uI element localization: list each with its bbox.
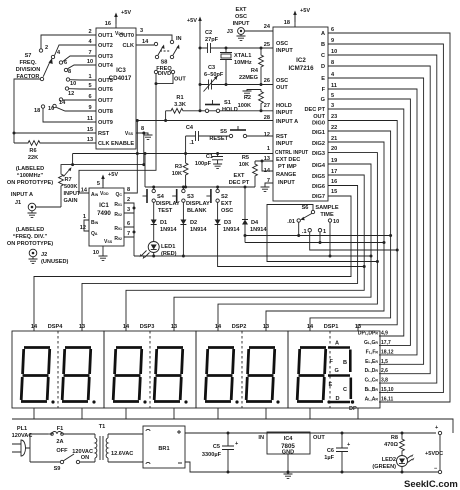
svg-text:SeekIC.com: SeekIC.com bbox=[404, 479, 458, 490]
svg-text:F: F bbox=[330, 359, 334, 365]
svg-text:OSC: OSC bbox=[221, 208, 233, 214]
svg-text:470Ω: 470Ω bbox=[384, 442, 398, 448]
svg-text:D4: D4 bbox=[251, 220, 259, 226]
svg-text:11: 11 bbox=[87, 116, 93, 122]
switch S6 SAMPLE TIME bbox=[287, 205, 339, 235]
svg-text:INPUT: INPUT bbox=[276, 48, 293, 54]
svg-text:IN: IN bbox=[258, 435, 264, 441]
svg-text:27pF: 27pF bbox=[205, 37, 219, 43]
svg-text:16,11: 16,11 bbox=[381, 397, 393, 403]
IC3 pin16 +5V bbox=[115, 14, 117, 28]
svg-text:11: 11 bbox=[331, 83, 337, 89]
svg-text:R3: R3 bbox=[175, 164, 182, 170]
svg-text:5: 5 bbox=[331, 93, 334, 99]
svg-text:R1: R1 bbox=[176, 95, 183, 101]
transformer T1 bbox=[72, 424, 143, 462]
svg-text:120VAC: 120VAC bbox=[12, 433, 33, 439]
svg-text:INPUT: INPUT bbox=[278, 180, 295, 186]
svg-text:13: 13 bbox=[87, 137, 93, 143]
svg-text:IC1: IC1 bbox=[99, 202, 109, 209]
svg-text:.01: .01 bbox=[287, 219, 295, 225]
wire segment G pin 5 bbox=[328, 99, 410, 345]
svg-text:LED1: LED1 bbox=[161, 244, 175, 250]
bridge rectifier BR1 bbox=[143, 426, 185, 468]
svg-text:17,7: 17,7 bbox=[381, 340, 391, 346]
svg-text:3300µF: 3300µF bbox=[202, 452, 222, 458]
svg-text:DP: DP bbox=[349, 406, 357, 412]
svg-text:OUT: OUT bbox=[276, 85, 288, 91]
svg-text:F1: F1 bbox=[57, 426, 64, 432]
svg-text:C6: C6 bbox=[327, 448, 334, 454]
svg-text:12.6VAC: 12.6VAC bbox=[111, 451, 133, 457]
svg-text:+5V: +5V bbox=[121, 10, 131, 16]
svg-text:C1: C1 bbox=[206, 154, 213, 160]
svg-text:D: D bbox=[336, 396, 340, 402]
diode D1 1N914 bbox=[151, 217, 157, 227]
wire DIG7 pin 15 bbox=[34, 196, 351, 331]
pushbutton S4 DISPLAY TEST bbox=[143, 187, 180, 217]
svg-text:XTAL1: XTAL1 bbox=[234, 53, 251, 59]
svg-text:IC3: IC3 bbox=[116, 67, 126, 74]
svg-text:GAIN: GAIN bbox=[64, 198, 78, 204]
S7 common wire to left rail bbox=[14, 79, 40, 143]
resistor R8 470 ohm bbox=[401, 433, 403, 437]
svg-text:6: 6 bbox=[64, 60, 67, 66]
switch S7 FREQ DIVISION FACTOR bbox=[16, 45, 77, 114]
svg-text:16: 16 bbox=[331, 179, 337, 185]
svg-text:OUT1: OUT1 bbox=[98, 33, 113, 39]
digit DSP1 left bbox=[297, 348, 331, 404]
svg-text:C5: C5 bbox=[213, 444, 220, 450]
svg-text:DSP1: DSP1 bbox=[324, 324, 339, 330]
svg-text:OUT2: OUT2 bbox=[98, 43, 113, 49]
wire DIG5 pin 17 bbox=[126, 175, 364, 331]
IC3 CLK pin 14 wire to S8 bbox=[136, 44, 154, 46]
svg-text:7: 7 bbox=[88, 50, 91, 56]
svg-text:RST: RST bbox=[276, 134, 288, 140]
svg-text:8: 8 bbox=[68, 69, 71, 75]
wire DIG0 pin 23 bbox=[328, 121, 397, 332]
svg-text:S7: S7 bbox=[25, 53, 32, 59]
display DSP3 bbox=[104, 324, 196, 408]
digit DSP2 right bbox=[246, 348, 280, 404]
svg-text:15: 15 bbox=[87, 127, 93, 133]
wire R7 node to IC3 ground stub bbox=[73, 133, 144, 165]
svg-text:DIG2: DIG2 bbox=[312, 141, 325, 147]
svg-text:RANGE: RANGE bbox=[276, 172, 296, 178]
pushbutton S2 EXT OSC bbox=[206, 187, 233, 217]
svg-text:19: 19 bbox=[331, 158, 337, 164]
svg-text:22K: 22K bbox=[28, 155, 38, 161]
LED1 (RED) bbox=[153, 227, 155, 242]
svg-text:CLK: CLK bbox=[123, 43, 135, 49]
wire display anode rail bbox=[12, 419, 453, 433]
svg-text:BLANK: BLANK bbox=[187, 208, 207, 214]
svg-text:120VAC: 120VAC bbox=[72, 449, 93, 455]
IC2 pin7 ground bbox=[265, 183, 273, 187]
IC2 ICM7216 bbox=[273, 27, 328, 201]
svg-text:8: 8 bbox=[331, 60, 334, 66]
svg-text:12: 12 bbox=[68, 91, 74, 97]
svg-text:15,10: 15,10 bbox=[381, 387, 394, 393]
resistor R1 3.3K bbox=[169, 108, 185, 113]
svg-text:ICM7216: ICM7216 bbox=[288, 65, 314, 72]
resistor R6 22K bbox=[26, 141, 42, 146]
svg-text:100pF: 100pF bbox=[195, 161, 212, 167]
svg-text:C: C bbox=[343, 387, 347, 393]
display DSP4 bbox=[12, 324, 104, 408]
svg-text:23: 23 bbox=[331, 114, 337, 120]
LED2 (GREEN) bbox=[401, 453, 403, 456]
svg-text:1: 1 bbox=[323, 229, 326, 235]
IC1 pin5 +5V bbox=[102, 176, 104, 188]
S7 contact wires bbox=[41, 35, 80, 49]
svg-text:R7: R7 bbox=[65, 177, 72, 183]
plug PL1 120VAC bbox=[12, 426, 55, 462]
svg-text:DSP2: DSP2 bbox=[232, 324, 247, 330]
svg-text:IC4: IC4 bbox=[284, 436, 294, 442]
svg-text:16: 16 bbox=[105, 21, 111, 27]
svg-text:13: 13 bbox=[355, 324, 361, 330]
svg-text:14: 14 bbox=[123, 324, 130, 330]
svg-text:DIVD: DIVD bbox=[158, 71, 171, 77]
svg-text:CLK ENABLE: CLK ENABLE bbox=[98, 141, 134, 147]
svg-text:OSC: OSC bbox=[276, 41, 288, 47]
wire INPUT A row bbox=[137, 120, 273, 122]
power top rail bbox=[185, 432, 436, 434]
wire DIG3 pin 20 bbox=[218, 153, 377, 331]
svg-text:18,12: 18,12 bbox=[381, 349, 394, 355]
svg-text:OUT7: OUT7 bbox=[98, 98, 113, 104]
svg-text:D: D bbox=[321, 64, 325, 70]
svg-text:6–50pF: 6–50pF bbox=[204, 72, 224, 78]
svg-text:OUT4: OUT4 bbox=[98, 63, 114, 69]
svg-text:DIG7: DIG7 bbox=[312, 194, 325, 200]
svg-text:2,6: 2,6 bbox=[381, 368, 388, 374]
svg-text:OSC: OSC bbox=[276, 78, 288, 84]
svg-text:F: F bbox=[322, 87, 326, 93]
svg-text:24: 24 bbox=[264, 24, 271, 30]
svg-text:9: 9 bbox=[331, 38, 334, 44]
svg-text:RST: RST bbox=[98, 131, 110, 137]
svg-text:2: 2 bbox=[88, 29, 91, 35]
digit DSP3 left bbox=[113, 348, 147, 404]
svg-text:3,8: 3,8 bbox=[381, 378, 388, 384]
svg-text:3: 3 bbox=[127, 207, 130, 213]
svg-text:(UNUSED): (UNUSED) bbox=[41, 259, 68, 265]
svg-text:DIG0: DIG0 bbox=[312, 121, 325, 127]
svg-text:1N914: 1N914 bbox=[223, 227, 240, 233]
svg-text:OUT: OUT bbox=[174, 77, 186, 83]
svg-text:OUT5: OUT5 bbox=[98, 78, 113, 84]
svg-text:DSP4: DSP4 bbox=[48, 324, 64, 330]
crystal XTAL1 10MHz bbox=[220, 48, 252, 85]
svg-text:PT IMP: PT IMP bbox=[278, 164, 297, 170]
svg-text:S4: S4 bbox=[157, 194, 165, 200]
svg-text:(LABELED: (LABELED bbox=[16, 227, 44, 233]
svg-text:3: 3 bbox=[331, 103, 334, 109]
svg-text:14: 14 bbox=[31, 324, 38, 330]
svg-text:3.3K: 3.3K bbox=[174, 102, 186, 108]
svg-text:2A: 2A bbox=[56, 439, 63, 445]
svg-text:12: 12 bbox=[80, 225, 86, 231]
svg-text:ON PROTOTYPE): ON PROTOTYPE) bbox=[7, 180, 53, 186]
svg-text:PL1: PL1 bbox=[17, 426, 27, 432]
svg-text:DIG1: DIG1 bbox=[312, 130, 325, 136]
svg-text:DISPLAY: DISPLAY bbox=[186, 201, 210, 207]
svg-text:1,5: 1,5 bbox=[381, 359, 388, 365]
svg-text:1: 1 bbox=[83, 214, 86, 220]
svg-text:IC2: IC2 bbox=[296, 57, 306, 64]
svg-text:EXT: EXT bbox=[221, 201, 232, 207]
IC3 pin stubs left bbox=[14, 35, 96, 143]
svg-text:S6: S6 bbox=[302, 205, 309, 211]
wire segment B pin 9 bbox=[328, 44, 443, 393]
svg-text:S8: S8 bbox=[161, 60, 168, 66]
regulator IC4 7805 bbox=[258, 432, 325, 478]
svg-text:D2: D2 bbox=[190, 220, 197, 226]
pushbutton S3 DISPLAY BLANK bbox=[172, 187, 210, 217]
svg-text:10K: 10K bbox=[172, 171, 182, 177]
IC3 CD4017 bbox=[96, 28, 136, 149]
svg-text:C4: C4 bbox=[186, 125, 194, 131]
digit DSP3 right bbox=[154, 348, 188, 404]
svg-text:HOLD: HOLD bbox=[222, 107, 238, 113]
svg-text:ON PROTOTYPE): ON PROTOTYPE) bbox=[7, 241, 53, 247]
wire segment D pin 8 bbox=[328, 66, 430, 374]
resistor R2 100K bbox=[247, 90, 261, 92]
svg-text:FREQ.: FREQ. bbox=[19, 60, 37, 66]
svg-text:6: 6 bbox=[127, 221, 130, 227]
svg-text:TIME: TIME bbox=[320, 212, 334, 218]
wire diode bottom rail to DIG4 bbox=[134, 255, 371, 257]
svg-text:1N914: 1N914 bbox=[160, 227, 177, 233]
svg-text:OUT9: OUT9 bbox=[98, 120, 113, 126]
output terminals +5VDC bbox=[438, 431, 441, 434]
+5V osc bbox=[198, 17, 202, 29]
diode D4 1N914 bbox=[244, 187, 246, 217]
svg-text:5: 5 bbox=[97, 181, 100, 187]
svg-text:INPUT: INPUT bbox=[64, 191, 81, 197]
svg-text:3: 3 bbox=[140, 28, 143, 34]
svg-text:C3: C3 bbox=[208, 65, 215, 71]
display DSP2 bbox=[196, 324, 288, 408]
wire RST row / C4 S5 RESET bbox=[186, 131, 273, 141]
IC1 7490 bbox=[89, 188, 124, 246]
diode D3 1N914 bbox=[215, 217, 221, 227]
svg-text:14: 14 bbox=[59, 100, 66, 106]
svg-text:1µF: 1µF bbox=[324, 455, 334, 461]
resistor R5 10K bbox=[255, 161, 273, 171]
svg-text:1N914: 1N914 bbox=[250, 227, 267, 233]
svg-text:A: A bbox=[335, 341, 339, 347]
svg-text:OUT3: OUT3 bbox=[98, 54, 113, 60]
wire CNTRL row pin 1 bbox=[73, 154, 273, 188]
svg-text:C: C bbox=[321, 53, 325, 59]
svg-text:OUT: OUT bbox=[313, 435, 325, 441]
svg-text:DPL,DPR: DPL,DPR bbox=[358, 331, 379, 337]
wire DIG2 pin 21 bbox=[266, 142, 384, 331]
svg-text:S5: S5 bbox=[220, 129, 227, 135]
potentiometer R7 500K INPUT GAIN bbox=[61, 165, 73, 172]
svg-text:IN: IN bbox=[176, 36, 182, 42]
svg-text:INPUT: INPUT bbox=[233, 21, 250, 27]
svg-text:S9: S9 bbox=[54, 466, 61, 472]
svg-text:10K: 10K bbox=[239, 162, 249, 168]
switch S8 FREQ DIVD bbox=[79, 36, 186, 193]
svg-text:+5V: +5V bbox=[108, 172, 118, 178]
pushbutton S1 HOLD bbox=[205, 109, 208, 112]
svg-text:OUT0: OUT0 bbox=[119, 33, 134, 39]
svg-text:J3: J3 bbox=[227, 29, 233, 35]
switch S9 ON OFF bbox=[60, 460, 63, 463]
display DSP1 bbox=[288, 324, 380, 408]
capacitor C6 1uF bbox=[336, 433, 348, 472]
wire S6 tap 10 to diode rail bbox=[329, 222, 331, 256]
wire S6 tap .01 to DIG1 bbox=[245, 235, 391, 237]
svg-text:S3: S3 bbox=[187, 194, 194, 200]
svg-text:A: A bbox=[321, 31, 325, 37]
svg-text:J1: J1 bbox=[15, 200, 21, 206]
svg-text:TEST: TEST bbox=[158, 208, 173, 214]
svg-text:R8: R8 bbox=[391, 435, 398, 441]
svg-text:10MHz: 10MHz bbox=[234, 60, 252, 66]
wire D4 to S6 tap 1 and DIG2 bbox=[245, 242, 384, 244]
svg-text:OUT: OUT bbox=[313, 114, 325, 120]
resistor R3 10K bbox=[183, 161, 188, 177]
diode D2 1N914 bbox=[180, 217, 186, 227]
svg-text:INPUT: INPUT bbox=[276, 110, 293, 116]
svg-text:14: 14 bbox=[81, 188, 88, 194]
svg-text:13: 13 bbox=[263, 324, 269, 330]
IC1 reset pins bracket 2,3 and 6,7 bbox=[124, 203, 134, 256]
svg-text:8: 8 bbox=[127, 187, 130, 193]
svg-text:DIVISION: DIVISION bbox=[16, 67, 41, 73]
wire segment DEC PT pin 3 bbox=[328, 109, 404, 336]
svg-text:22MEG: 22MEG bbox=[239, 75, 258, 81]
digit DSP4 left bbox=[21, 348, 55, 404]
svg-text:J2: J2 bbox=[41, 252, 47, 258]
svg-text:G: G bbox=[321, 97, 325, 103]
svg-text:DIG5: DIG5 bbox=[312, 174, 325, 180]
wire S6 pivot to DIG3 bbox=[267, 205, 377, 262]
svg-text:B: B bbox=[343, 360, 347, 366]
svg-text:10: 10 bbox=[333, 219, 339, 225]
svg-text:(LABELED: (LABELED bbox=[16, 166, 44, 172]
svg-text:E: E bbox=[329, 382, 333, 388]
svg-text:RESET: RESET bbox=[209, 136, 228, 142]
svg-text:10: 10 bbox=[331, 49, 337, 55]
svg-text:D3: D3 bbox=[224, 220, 231, 226]
IC2 pin 18 +5V bbox=[294, 12, 296, 27]
svg-text:25: 25 bbox=[264, 42, 270, 48]
svg-text:DIG4: DIG4 bbox=[312, 163, 326, 169]
svg-text:1: 1 bbox=[88, 74, 91, 80]
svg-text:BR1: BR1 bbox=[158, 446, 169, 452]
digit DSP1 right with segment letters bbox=[328, 341, 357, 413]
svg-text:14: 14 bbox=[142, 39, 149, 45]
svg-text:OSC: OSC bbox=[235, 14, 247, 20]
svg-text:7490: 7490 bbox=[97, 210, 111, 217]
digit DSP4 right bbox=[62, 348, 96, 404]
fuse F1 2A bbox=[48, 433, 52, 435]
svg-text:100K: 100K bbox=[238, 103, 251, 109]
capacitor C1 100pF bbox=[212, 154, 223, 165]
svg-text:INPUT A: INPUT A bbox=[276, 119, 298, 125]
wire segment C pin 10 bbox=[328, 55, 437, 383]
power bottom rail bbox=[185, 462, 438, 472]
svg-text:R4: R4 bbox=[251, 68, 259, 74]
IC1 B_IN / Q_A bracket pins 1,12 bbox=[84, 220, 89, 231]
wire S6 tap .1 to DIG0 bbox=[310, 232, 398, 250]
svg-text:17: 17 bbox=[331, 169, 337, 175]
svg-text:CNTRL INPUT: CNTRL INPUT bbox=[275, 150, 308, 156]
svg-text:OUT8: OUT8 bbox=[98, 109, 113, 115]
svg-text:8: 8 bbox=[141, 126, 144, 132]
svg-text:6: 6 bbox=[331, 27, 334, 33]
svg-text:DIG6: DIG6 bbox=[312, 184, 325, 190]
wire segment F pin 11 bbox=[328, 89, 417, 355]
svg-text:2: 2 bbox=[127, 197, 130, 203]
HOLD row wire bbox=[166, 111, 273, 121]
wire DIG6 pin 16 bbox=[82, 186, 358, 332]
jack J3 EXT OSC INPUT bbox=[227, 7, 273, 40]
svg-text:T1: T1 bbox=[99, 424, 106, 430]
svg-text:500K: 500K bbox=[64, 184, 77, 190]
svg-text:14: 14 bbox=[215, 324, 222, 330]
svg-text:1N914: 1N914 bbox=[190, 227, 207, 233]
svg-text:20: 20 bbox=[331, 146, 337, 152]
wire segment A pin 6 bbox=[328, 33, 450, 402]
svg-text:DEC PT: DEC PT bbox=[229, 180, 250, 186]
svg-text:+5VDC: +5VDC bbox=[425, 451, 443, 457]
svg-text:R2: R2 bbox=[244, 95, 251, 101]
svg-text:10: 10 bbox=[93, 250, 99, 256]
svg-text:“FREQ. DIV.”: “FREQ. DIV.” bbox=[13, 234, 48, 240]
svg-text:16: 16 bbox=[48, 106, 54, 112]
svg-text:18: 18 bbox=[34, 108, 40, 114]
capacitor C5 3300uF bbox=[222, 433, 234, 472]
wire QC feed up to rows bbox=[124, 121, 137, 194]
svg-text:DSP3: DSP3 bbox=[140, 324, 155, 330]
svg-text:R6: R6 bbox=[29, 148, 36, 154]
svg-text:EXT: EXT bbox=[236, 7, 247, 13]
svg-text:OUT6: OUT6 bbox=[98, 87, 113, 93]
resistor R4 22MEG bbox=[260, 48, 262, 53]
svg-text:(GREEN): (GREEN) bbox=[372, 464, 396, 470]
svg-text:4,9: 4,9 bbox=[381, 331, 388, 337]
svg-text:+5V: +5V bbox=[300, 8, 310, 14]
svg-text:+5V: +5V bbox=[187, 18, 197, 24]
svg-text:HOLD: HOLD bbox=[276, 103, 292, 109]
wire DIG1 pin 22 bbox=[310, 131, 391, 331]
svg-text:26: 26 bbox=[264, 78, 270, 84]
svg-text:22: 22 bbox=[331, 125, 337, 131]
svg-text:6: 6 bbox=[88, 94, 91, 100]
svg-text:G: G bbox=[335, 368, 339, 374]
svg-text:.1: .1 bbox=[302, 229, 307, 235]
svg-text:27: 27 bbox=[264, 103, 270, 109]
IC1 pin10 ground bbox=[102, 246, 104, 256]
svg-text:5: 5 bbox=[88, 83, 91, 89]
svg-text:D1: D1 bbox=[160, 220, 167, 226]
svg-text:C2: C2 bbox=[205, 30, 212, 36]
svg-text:INPUT: INPUT bbox=[276, 141, 293, 147]
svg-text:DEC PT: DEC PT bbox=[304, 107, 325, 113]
svg-text:18: 18 bbox=[284, 20, 290, 26]
svg-text:15: 15 bbox=[331, 189, 337, 195]
svg-text:“100MHz”: “100MHz” bbox=[17, 173, 44, 179]
